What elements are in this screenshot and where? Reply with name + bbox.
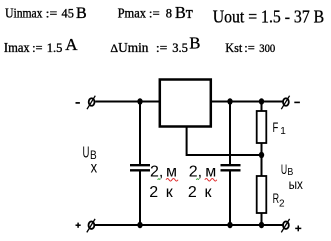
svg-text::=: := [244, 40, 255, 55]
spellcheck mark under comma of C2 [196, 179, 199, 180]
svg-text::=: := [149, 5, 160, 20]
svg-text:Umin: Umin [118, 40, 149, 55]
svg-text::=: := [46, 5, 58, 20]
svg-text:2,: 2, [150, 163, 163, 180]
spellcheck squiggle under м of C2 [205, 179, 217, 182]
label plus input [76, 223, 81, 228]
svg-text:2,: 2, [189, 163, 202, 180]
label Uвых output voltage [281, 162, 303, 192]
wire right capacitor branch bottom [229, 171, 231, 226]
node bottom left cap [137, 222, 142, 228]
svg-text:U: U [281, 162, 287, 178]
svg-text:к: к [166, 184, 174, 201]
svg-text:м: м [205, 163, 216, 180]
resistor F1 body [257, 111, 267, 143]
wire bottom rail [95, 224, 283, 226]
svg-text:Uinmax: Uinmax [5, 5, 43, 20]
regulator block U1 [160, 80, 211, 127]
spellcheck squiggle under м of C1 [166, 179, 178, 182]
svg-text:2: 2 [279, 199, 285, 210]
svg-text::=: := [156, 40, 168, 55]
terminal input top [87, 96, 95, 110]
capacitor C2 [221, 164, 241, 166]
svg-text:1: 1 [280, 126, 286, 137]
svg-text:300: 300 [259, 43, 275, 55]
label plus output [295, 226, 301, 232]
svg-text:3.5: 3.5 [172, 41, 188, 55]
svg-text:F: F [273, 119, 279, 135]
svg-text:А: А [65, 35, 78, 54]
label Uвх input voltage [83, 143, 98, 176]
wire left capacitor branch top [139, 102, 141, 166]
label minus input [76, 102, 80, 104]
wire left capacitor branch bottom [139, 171, 141, 226]
node bottom resistor [259, 222, 264, 228]
svg-text:В: В [76, 5, 87, 22]
svg-text:Вт: Вт [175, 3, 193, 22]
wire adjust pin [187, 127, 262, 155]
svg-text:Imax: Imax [4, 40, 30, 55]
svg-text:U: U [83, 143, 90, 161]
terminal output top [281, 96, 289, 110]
svg-text:ых: ых [289, 176, 303, 192]
svg-text:х: х [91, 159, 98, 176]
svg-text:Uout = 1.5 - 37 В: Uout = 1.5 - 37 В [213, 6, 325, 26]
svg-text:к: к [205, 184, 213, 201]
svg-text:8: 8 [166, 6, 172, 20]
wire resistor branch bottom lead [261, 213, 263, 225]
node bottom right cap [227, 222, 232, 228]
svg-text:Pmax: Pmax [118, 5, 147, 20]
terminal input bottom [87, 219, 95, 233]
svg-text:1.5: 1.5 [47, 41, 63, 55]
label minus output [294, 101, 300, 103]
svg-text:м: м [166, 163, 177, 180]
resistor R2 body [257, 176, 267, 213]
wire resistor branch top lead [261, 102, 263, 112]
svg-text:2: 2 [188, 184, 197, 201]
spellcheck mark under comma of C1 [158, 179, 161, 180]
node top resistor [259, 98, 264, 104]
svg-text:В: В [189, 34, 200, 53]
node adjust junction [259, 152, 264, 158]
wire top rail [95, 101, 282, 103]
svg-text:Kst: Kst [225, 40, 242, 55]
capacitor C1 [130, 164, 150, 166]
terminal output bottom [281, 219, 289, 233]
node top right cap [227, 98, 232, 104]
svg-text:45: 45 [62, 5, 74, 20]
wire right capacitor branch top [229, 102, 231, 166]
node top left cap [137, 98, 142, 104]
svg-text::=: := [32, 40, 43, 55]
svg-text:2: 2 [149, 184, 158, 201]
wire between resistors [261, 143, 263, 176]
